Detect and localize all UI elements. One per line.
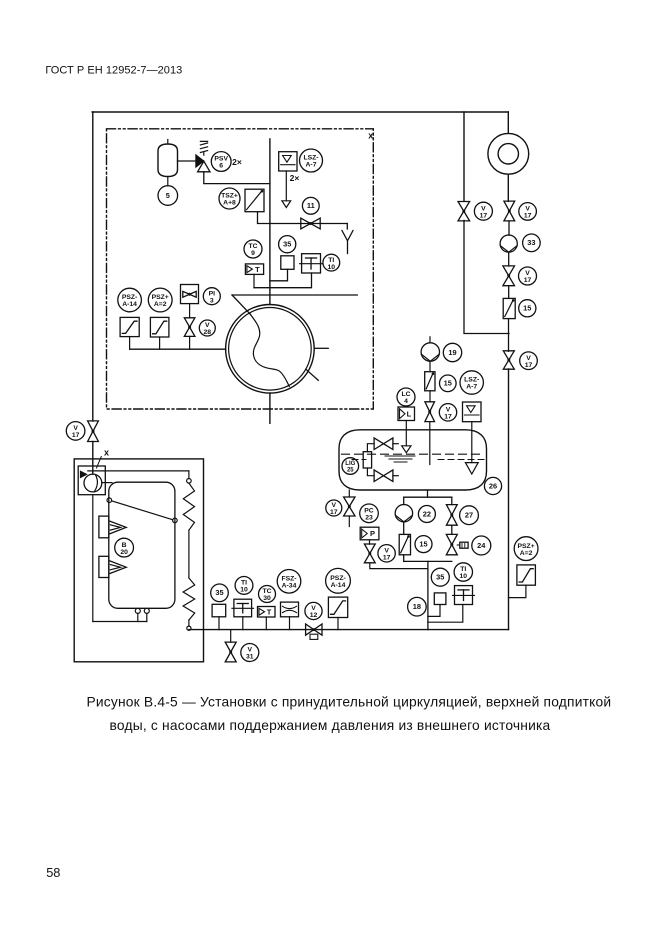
vent Y symbol <box>342 231 353 254</box>
wire PSV relief line <box>204 172 270 184</box>
svg-text:PC: PC <box>364 508 374 515</box>
burner 2 <box>99 556 126 577</box>
wire box15a to valve <box>429 391 431 402</box>
circle label TI 10 b <box>454 563 472 581</box>
circle label 35 top <box>279 236 296 253</box>
svg-text:10: 10 <box>328 264 336 271</box>
level switch LSZ box tank <box>463 402 482 422</box>
svg-text:A-7: A-7 <box>306 162 317 169</box>
circle label 18 <box>408 597 427 616</box>
circle label 35 b <box>431 568 449 586</box>
wire PSZ- stem <box>129 337 131 350</box>
wire PSZ+ stem <box>159 337 161 349</box>
svg-text:FSZ-: FSZ- <box>281 576 296 583</box>
wire right main down <box>508 369 510 630</box>
restrictor box 15 b <box>399 534 410 554</box>
svg-text:P: P <box>370 529 375 538</box>
tank water level dashes <box>342 454 485 459</box>
boiler drum body <box>109 482 175 608</box>
circle label 15 right col <box>519 300 536 317</box>
svg-text:18: 18 <box>413 602 421 611</box>
wire gauge bottom link <box>367 468 374 476</box>
svg-text:30: 30 <box>263 595 271 602</box>
svg-text:35: 35 <box>436 573 444 582</box>
circle label 19 <box>443 343 461 361</box>
circle label V 28 <box>199 320 215 336</box>
svg-text:27: 27 <box>465 511 473 520</box>
svg-text:TI: TI <box>328 257 334 264</box>
circle label 5 <box>158 186 178 206</box>
svg-text:4: 4 <box>404 398 408 405</box>
svg-text:V: V <box>205 322 210 329</box>
thermometer TI box b <box>453 586 475 605</box>
valve V17 below pump33 <box>503 266 515 286</box>
svg-text:PI: PI <box>209 290 216 297</box>
controller box >L <box>398 407 415 421</box>
svg-text:PSZ-: PSZ- <box>122 294 137 301</box>
transmitter box PSZ- A-14 <box>120 317 139 336</box>
svg-text:T: T <box>255 265 260 274</box>
wire pump22 to box15 <box>403 522 405 535</box>
wire PC branch to main <box>370 563 428 569</box>
boiler water curve <box>250 314 289 386</box>
wire below double circle <box>507 174 509 201</box>
transmitter box PSZ- bottom <box>328 597 347 617</box>
svg-text:17: 17 <box>524 213 532 220</box>
wire boiler bottom stem <box>269 393 271 423</box>
svg-text:17: 17 <box>330 509 338 516</box>
wire coil top link <box>188 471 190 479</box>
circulation pump box <box>78 466 105 495</box>
pump 22 <box>395 505 412 522</box>
wire furnace bottom link <box>93 621 147 623</box>
wire tank drain left <box>348 490 350 497</box>
circle label 11 <box>302 197 319 214</box>
wire branch join <box>404 560 452 562</box>
circle label PC 23 <box>360 504 379 523</box>
valve V17 above tank <box>425 402 435 422</box>
label 2x near LSZ <box>290 173 300 183</box>
svg-text:A=2: A=2 <box>520 550 533 557</box>
circle label PSZ+ A=2 right <box>514 537 538 561</box>
circle label LSZ- A-7 tank <box>460 371 483 394</box>
wire LSZ probe line <box>285 171 287 201</box>
circle label LIG 25 <box>342 458 359 475</box>
caption line 2 <box>110 718 551 733</box>
svg-text:x: x <box>104 448 109 458</box>
svg-text:10: 10 <box>240 587 248 594</box>
boundary label x (top right) <box>368 131 373 141</box>
dash-dot system boundary <box>107 129 374 409</box>
wire vessel to PSV <box>178 160 196 162</box>
valve V17 right col upper <box>504 201 515 221</box>
circle label FSZ- A-34 <box>277 570 301 594</box>
svg-text:V: V <box>526 355 531 362</box>
wire tank drain stub <box>348 516 350 527</box>
svg-text:V: V <box>73 425 78 432</box>
transmitter box PSZ+ right <box>517 565 536 585</box>
circle label 24 <box>472 536 491 555</box>
wire valve to box15 <box>508 286 510 299</box>
wire 35a stem <box>218 617 220 630</box>
svg-text:A-14: A-14 <box>331 582 346 589</box>
svg-text:ГОСТ Р ЕН 12952-7—2013: ГОСТ Р ЕН 12952-7—2013 <box>45 64 182 76</box>
wire PI stem <box>189 304 191 318</box>
wire box15 down right col <box>508 319 510 352</box>
svg-text:24: 24 <box>477 541 486 550</box>
flue connection double circle <box>488 133 529 174</box>
svg-text:28: 28 <box>204 329 212 336</box>
svg-text:V: V <box>311 605 316 612</box>
valve 11 <box>301 218 320 229</box>
svg-text:Рисунок В.4-5 — Установки с пр: Рисунок В.4-5 — Установки с принудительн… <box>86 695 611 710</box>
wire LSZ tank probe <box>471 422 473 463</box>
wire pump to drum <box>102 482 112 484</box>
circle label LC 4 <box>397 388 415 406</box>
wire main steam riser <box>269 139 271 305</box>
thermometer TI box top <box>300 254 323 273</box>
label x furnace <box>97 448 110 469</box>
valve 24 <box>446 534 457 554</box>
svg-text:TI: TI <box>460 566 466 573</box>
circle label B 20 <box>115 538 134 557</box>
svg-text:V: V <box>481 205 486 212</box>
wire bypass left branch <box>463 112 465 201</box>
pump 33 <box>500 235 517 252</box>
svg-text:T: T <box>267 607 272 616</box>
circle label 26 <box>484 477 501 494</box>
svg-text:A-14: A-14 <box>122 301 137 308</box>
svg-text:A=2: A=2 <box>154 301 167 308</box>
wire node stems <box>138 613 147 621</box>
thermometer TI box a <box>232 599 254 617</box>
circle label LSZ- A-7 top <box>300 149 323 172</box>
svg-text:17: 17 <box>72 432 80 439</box>
flow nozzle box FSZ <box>281 602 299 617</box>
transmitter TSZ box <box>245 189 264 212</box>
separator diagonal <box>112 501 173 520</box>
wire LC probe <box>405 421 407 446</box>
wire PSZ+ right link <box>509 585 526 597</box>
svg-text:22: 22 <box>423 509 431 518</box>
probe funnel LSZ tank <box>465 463 478 474</box>
wire V31 stem <box>230 630 232 643</box>
svg-text:6: 6 <box>219 163 223 170</box>
circle label PSZ+ A=2 <box>148 288 172 312</box>
wire center drain down <box>427 561 429 629</box>
svg-text:2×: 2× <box>290 173 300 183</box>
wire gauge bottom stub <box>393 475 398 477</box>
svg-text:33: 33 <box>527 238 535 247</box>
wire TSZ tap to steam line <box>258 212 348 224</box>
valve V17 left label <box>66 422 85 441</box>
valve V31 <box>225 642 236 662</box>
svg-text:B: B <box>122 542 127 549</box>
circle label PSV 6 <box>211 152 231 172</box>
boiler drum outer <box>226 305 315 394</box>
wire top steam header <box>92 111 508 113</box>
pressure tap box PI <box>181 285 199 304</box>
svg-text:V: V <box>525 270 530 277</box>
wire to pump 33 <box>508 221 510 235</box>
circle label TI 10 a <box>235 577 253 595</box>
svg-text:31: 31 <box>246 654 254 661</box>
svg-text:V: V <box>248 647 253 654</box>
svg-text:A+8: A+8 <box>223 200 236 207</box>
svg-text:V: V <box>525 206 530 213</box>
svg-text:LIG: LIG <box>345 461 355 467</box>
wire coil middle <box>188 530 190 578</box>
circulation pump <box>80 470 102 492</box>
valve V17 tank drain <box>344 497 355 516</box>
wire right branch upper <box>451 497 453 504</box>
svg-text:25: 25 <box>347 467 354 473</box>
gauge valve bottom <box>374 470 393 482</box>
svg-text:LSZ-: LSZ- <box>464 377 479 384</box>
wire 35 tap <box>270 269 288 281</box>
restrictor box 15 a <box>425 372 435 391</box>
svg-text:19: 19 <box>448 348 456 357</box>
svg-text:17: 17 <box>480 212 488 219</box>
svg-text:35: 35 <box>283 240 291 249</box>
wire PI diagonal tap <box>232 295 250 314</box>
svg-text:17: 17 <box>524 277 532 284</box>
svg-text:LSZ-: LSZ- <box>303 155 318 162</box>
tank 26 shell <box>339 430 487 490</box>
circle label V17 below 33 <box>519 267 537 285</box>
svg-text:12: 12 <box>310 612 318 619</box>
furnace enclosure <box>74 459 203 662</box>
probe funnel LSZ <box>282 201 291 208</box>
svg-text:PSV: PSV <box>214 156 228 163</box>
circle label 27 <box>460 506 479 525</box>
svg-text:20: 20 <box>120 549 128 556</box>
svg-text:PSZ+: PSZ+ <box>517 543 534 550</box>
wire gauge top stub <box>393 443 398 445</box>
svg-text:A-7: A-7 <box>466 384 477 391</box>
circle label V 12 <box>305 602 322 619</box>
circle label 15 b <box>415 536 432 553</box>
valve V28 <box>184 318 195 337</box>
wire vent elbow <box>346 224 348 230</box>
wire TIa stem <box>242 617 244 630</box>
gauge glass tube <box>363 452 371 468</box>
wire instrument header <box>130 348 226 350</box>
valve V17 PC branch <box>364 544 375 563</box>
svg-text:5: 5 <box>166 191 170 200</box>
sensor box 35 top <box>281 256 294 269</box>
svg-text:TC: TC <box>248 243 257 250</box>
valve V12 <box>306 624 322 639</box>
circle label V17 above tank <box>439 404 456 421</box>
svg-text:PSZ-: PSZ- <box>330 575 345 582</box>
wire boiler right stub <box>314 347 328 349</box>
sensor box 35 a <box>212 604 226 617</box>
wire above double circle <box>507 112 509 133</box>
svg-text:воды, с насосами поддержанием: воды, с насосами поддержанием давления и… <box>110 718 551 733</box>
svg-text:9: 9 <box>251 250 255 257</box>
label 2x near PSV <box>232 157 242 167</box>
wire gauge top link <box>367 444 374 452</box>
svg-text:10: 10 <box>460 573 468 580</box>
node coil bottom <box>187 626 191 630</box>
circle label V17 rc lower <box>520 352 538 370</box>
circle label V17 rc upper <box>519 203 537 221</box>
wire pump discharge top <box>88 470 189 472</box>
circle label TC 30 <box>259 586 276 603</box>
svg-text:17: 17 <box>444 414 452 421</box>
heating coil upper <box>183 483 194 530</box>
svg-text:V: V <box>332 502 337 509</box>
svg-text:11: 11 <box>307 201 315 210</box>
circle label TSZ+ A+8 <box>219 188 240 209</box>
wire FSZ stem <box>289 617 291 630</box>
circle label PSZ- A-14 <box>118 288 142 312</box>
circle label 22 <box>418 506 435 523</box>
water surface hatch <box>385 456 415 462</box>
probe funnel LC <box>402 446 411 453</box>
wire bottom flow line <box>189 629 509 631</box>
caption line 1 <box>86 695 611 710</box>
svg-text:A-34: A-34 <box>282 583 297 590</box>
svg-text:V: V <box>384 548 389 555</box>
circle label PI 3 <box>203 288 220 305</box>
wire PSZ- bottom stem <box>337 618 339 630</box>
svg-text:58: 58 <box>46 865 60 880</box>
valve V17 left <box>88 421 99 442</box>
svg-text:PSZ+: PSZ+ <box>152 294 169 301</box>
svg-text:23: 23 <box>365 515 373 522</box>
pump 19 <box>421 343 439 361</box>
svg-text:17: 17 <box>383 555 391 562</box>
wire TI tap line <box>254 273 312 288</box>
controller box >T <box>245 264 263 275</box>
svg-text:15: 15 <box>419 540 427 549</box>
controller box >P <box>360 527 379 540</box>
controller box >T bottom <box>258 607 276 618</box>
valve 24 actuator <box>457 542 468 548</box>
boiler drum inner <box>229 308 312 391</box>
svg-text:35: 35 <box>215 588 223 597</box>
valve V17 right col lower <box>503 351 514 369</box>
svg-text:LC: LC <box>401 391 410 398</box>
wire boiler diagonal stub <box>306 369 319 380</box>
circle label TI 10 top <box>323 254 340 271</box>
wire branch header <box>404 496 452 498</box>
wire pump suction down <box>92 495 94 622</box>
wire box15b down <box>403 555 405 562</box>
circle label 15 a <box>440 375 457 392</box>
wire left branch upper <box>403 497 405 504</box>
circle label PSZ- A-14 bottom <box>326 568 351 593</box>
node drum bottom left <box>135 608 140 613</box>
wire V28 stem <box>189 336 191 349</box>
wire pump19 stub <box>429 337 431 343</box>
svg-text:L: L <box>407 409 412 418</box>
svg-text:17: 17 <box>525 362 533 369</box>
wire TC30 stem <box>265 617 267 630</box>
wire 35b tap <box>428 605 440 617</box>
circle label V 31 <box>241 644 259 662</box>
wire valve27 to valve24 <box>451 525 453 534</box>
heating coil lower <box>183 578 195 626</box>
page number 58 <box>46 865 60 880</box>
svg-text:TC: TC <box>262 588 271 595</box>
node drum left <box>107 498 112 503</box>
wire tank outlet <box>427 490 429 497</box>
circle label V17 PC branch <box>378 545 395 562</box>
wire steam header line <box>232 294 357 296</box>
wire pump19 to box15 <box>429 361 431 372</box>
vessel 5 expansion tank <box>158 140 178 186</box>
node drum right <box>173 518 178 523</box>
burner 1 <box>99 516 126 538</box>
svg-text:TI: TI <box>241 580 247 587</box>
wire bypass lower <box>464 220 509 333</box>
wire pump33 to valve <box>508 252 510 266</box>
svg-text:2×: 2× <box>232 157 242 167</box>
svg-text:15: 15 <box>444 379 452 388</box>
safety valve PSV <box>196 141 210 171</box>
node drum bottom right <box>144 608 149 613</box>
sensor box 35 b <box>434 593 446 605</box>
wire valve to tank feed <box>429 422 431 465</box>
level switch LSZ box top <box>279 152 297 171</box>
svg-text:V: V <box>446 407 451 414</box>
wire left downcomer lower <box>92 442 94 475</box>
node coil top <box>187 479 192 484</box>
circle label V17 tank drain <box>326 500 342 516</box>
circle label 33 <box>523 234 541 252</box>
gauge valve top <box>374 438 393 450</box>
wire PC box to valve <box>369 540 371 544</box>
svg-text:x: x <box>368 131 373 141</box>
wire TC tap stem <box>253 274 255 287</box>
circle label V17 bypass <box>474 202 492 220</box>
svg-text:3: 3 <box>210 297 214 304</box>
wire left downcomer upper <box>92 112 94 421</box>
svg-text:15: 15 <box>523 304 531 313</box>
wire TIb tap <box>428 605 463 623</box>
valve 27 <box>446 505 457 526</box>
restrictor box 15 right col <box>503 298 515 318</box>
circle label 35 a <box>211 584 229 602</box>
header text <box>45 64 182 76</box>
transmitter box PSZ+ A=2 <box>150 317 169 337</box>
svg-text:26: 26 <box>489 481 497 490</box>
valve V17 bypass <box>458 202 470 221</box>
svg-text:TSZ+: TSZ+ <box>221 193 238 200</box>
circle label TC 9 <box>244 240 262 258</box>
